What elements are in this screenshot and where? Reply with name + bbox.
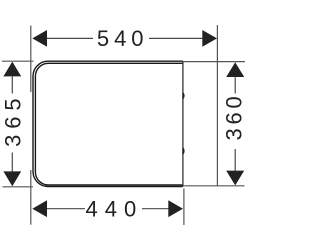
- arrowhead 365 up: [3, 62, 21, 77]
- extension line top-left horizontal for 365: [2, 60, 34, 62]
- hinge bump upper: [182, 92, 184, 99]
- dimension line 365: [11, 76, 13, 93]
- toilet seat lid outer contour: [33, 61, 183, 186]
- dimension line 360: [234, 77, 236, 93]
- svg-text:360: 360: [222, 92, 247, 140]
- extension line right vertical for 440: [183, 189, 185, 226]
- extension line left vertical (shared 540/440): [30, 26, 32, 93]
- arrowhead 360 down: [226, 171, 244, 186]
- extension line top-right horizontal for 360: [183, 61, 245, 63]
- hinge bump lower: [182, 147, 184, 154]
- toilet seat inner contour: [35, 63, 182, 185]
- svg-text:365: 365: [1, 92, 26, 146]
- svg-text:540: 540: [97, 26, 149, 51]
- dimension line 540: [47, 37, 94, 39]
- dimension line 440: [47, 208, 86, 210]
- arrowhead 360 up: [226, 62, 244, 77]
- extension line bottom-left horizontal for 365: [3, 186, 34, 188]
- arrowhead 440 right: [168, 200, 183, 217]
- extension line bottom-right horizontal for 360: [183, 185, 245, 187]
- arrowhead 440 left: [32, 200, 47, 217]
- extension line right vertical for 540: [216, 25, 218, 186]
- arrowhead 365 down: [3, 171, 21, 186]
- arrowhead 540 left: [32, 30, 47, 47]
- seat right edge (hinge side): [182, 61, 184, 186]
- svg-text:440: 440: [86, 197, 144, 222]
- arrowhead 540 right: [202, 30, 217, 47]
